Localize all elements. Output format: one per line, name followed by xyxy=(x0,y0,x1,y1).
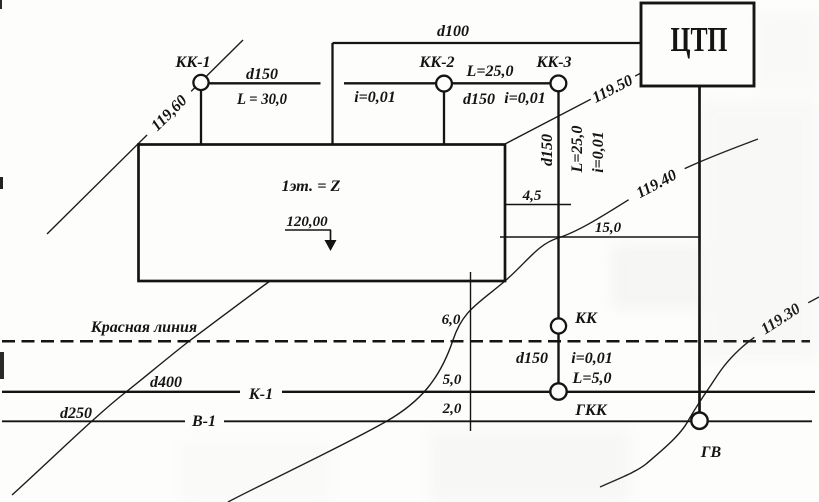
svg-text:КК: КК xyxy=(574,310,598,327)
sewer pipe KK-2 to KK-3 xyxy=(452,82,550,84)
TsTP box xyxy=(641,3,754,86)
svg-text:К-1: К-1 xyxy=(248,386,273,403)
scan artifact left edge lower xyxy=(0,352,4,379)
contour label 119,50 xyxy=(587,68,640,107)
svg-text:L=25,0: L=25,0 xyxy=(466,63,514,80)
svg-text:d400: d400 xyxy=(150,374,182,391)
sewer pipe KK-1 to KK-2 (segment 2) xyxy=(344,82,436,84)
vertical pipe TsTP to GV xyxy=(698,86,701,421)
svg-text:i=0,01: i=0,01 xyxy=(504,90,546,107)
svg-text:d150: d150 xyxy=(539,134,556,166)
pipe d100 vertical drop to building xyxy=(331,43,333,144)
red line (Krasnaya liniya), dashed xyxy=(2,340,810,343)
svg-text:L = 30,0: L = 30,0 xyxy=(236,91,287,108)
contour line (unlabeled, lower left) xyxy=(12,281,270,495)
svg-text:КК-3: КК-3 xyxy=(535,54,571,71)
building outline xyxy=(139,145,506,282)
elevation mark 120,00 xyxy=(285,214,337,251)
contour label 119,30 xyxy=(748,292,813,344)
svg-text:1эт. = Z: 1эт. = Z xyxy=(282,178,341,195)
svg-text:d150: d150 xyxy=(246,66,278,83)
svg-text:d250: d250 xyxy=(60,405,92,422)
scan artifact left edge upper xyxy=(0,177,3,189)
svg-text:ЦТП: ЦТП xyxy=(671,20,728,59)
drop from KK-2 into building xyxy=(443,91,445,144)
dimension line 4,5 xyxy=(505,204,571,206)
contour line 119,50 xyxy=(505,73,641,144)
manhole GKK xyxy=(550,383,566,399)
svg-text:i=0,01: i=0,01 xyxy=(590,131,607,173)
manhole KK-1 xyxy=(193,75,208,90)
vertical sewer pipe KK-3 to GKK xyxy=(557,91,559,391)
svg-text:Красная линия: Красная линия xyxy=(90,319,197,336)
dimension line 15,0 xyxy=(500,236,700,238)
svg-text:15,0: 15,0 xyxy=(595,220,622,236)
manhole KK xyxy=(551,318,566,333)
svg-text:L=5,0: L=5,0 xyxy=(572,370,612,387)
svg-text:В-1: В-1 xyxy=(191,413,216,430)
svg-text:5,0: 5,0 xyxy=(443,372,462,388)
svg-text:L=25,0: L=25,0 xyxy=(569,126,586,174)
svg-text:ГВ: ГВ xyxy=(700,444,722,461)
svg-text:4,5: 4,5 xyxy=(522,188,542,204)
sewer main K-1 xyxy=(2,391,240,393)
svg-text:ГКК: ГКК xyxy=(574,402,608,419)
svg-text:2,0: 2,0 xyxy=(442,401,462,417)
svg-text:i=0,01: i=0,01 xyxy=(571,350,613,367)
manhole KK-2 xyxy=(436,76,452,92)
contour line 119,40 xyxy=(228,139,758,502)
svg-text:d150: d150 xyxy=(463,91,495,108)
water main V-1 xyxy=(2,420,185,422)
svg-text:d150: d150 xyxy=(516,350,548,367)
scan artifact top left corner xyxy=(0,0,2,9)
contour line 119,60 xyxy=(47,40,243,234)
svg-text:КК-2: КК-2 xyxy=(418,54,454,71)
contour line 119,30 xyxy=(600,297,819,487)
svg-text:120,00: 120,00 xyxy=(286,214,328,230)
svg-text:119.50: 119.50 xyxy=(590,72,636,107)
sewer pipe KK-1 to KK-2 (segment 1) xyxy=(209,82,321,84)
svg-text:d100: d100 xyxy=(437,23,469,40)
manhole KK-3 xyxy=(551,76,567,92)
contour label 119,40 xyxy=(623,159,689,207)
vertical dimension line xyxy=(470,272,472,431)
svg-text:КК-1: КК-1 xyxy=(174,54,210,71)
drop from KK-1 into building xyxy=(200,90,202,144)
pipe d100 horizontal to TsTP xyxy=(333,42,642,44)
svg-text:i=0,01: i=0,01 xyxy=(354,89,396,106)
well GV xyxy=(691,413,707,429)
svg-text:6,0: 6,0 xyxy=(442,312,461,328)
